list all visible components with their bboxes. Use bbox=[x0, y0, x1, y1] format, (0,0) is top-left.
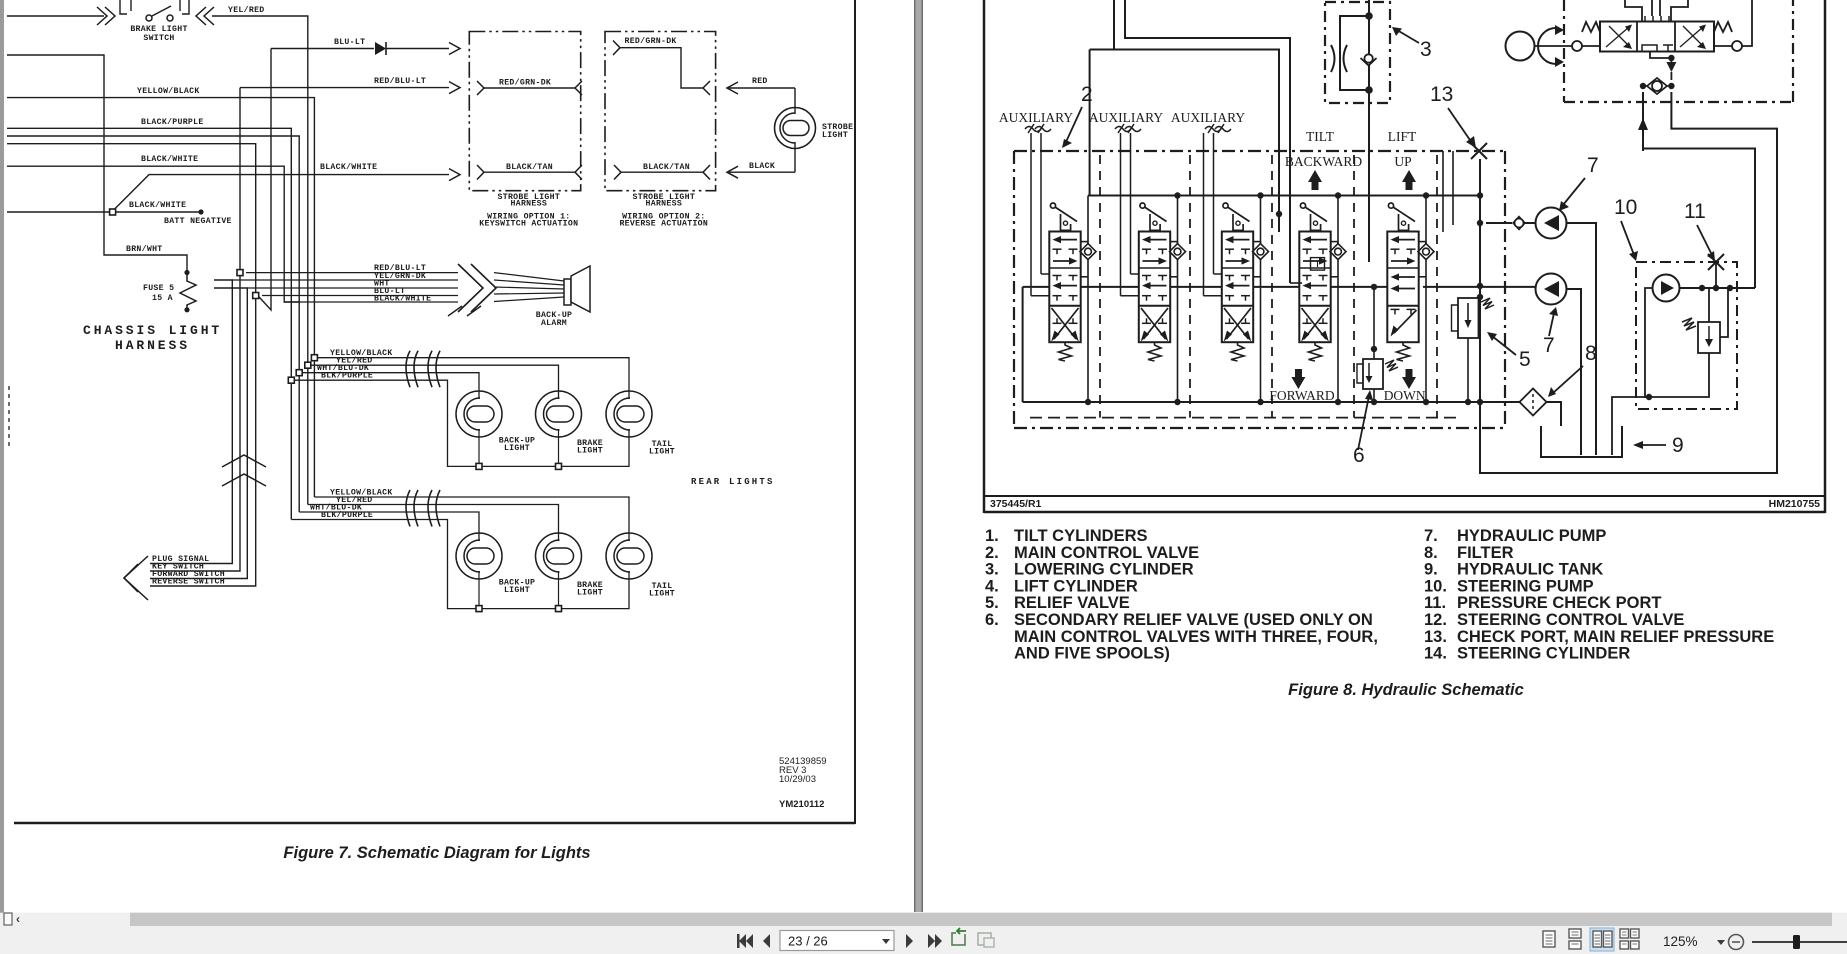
valve spool crossover box with arrows bbox=[1302, 308, 1327, 339]
svg-text:125%: 125% bbox=[1663, 934, 1698, 949]
bus junction dots bbox=[1085, 399, 1091, 405]
valve spool crossover box with arrows bbox=[1224, 308, 1249, 339]
svg-text:3.: 3. bbox=[985, 561, 999, 579]
wire bundle vertical 4 to reverse switch bbox=[150, 296, 256, 587]
steering wheel bbox=[1506, 32, 1535, 61]
top bus dots bbox=[1174, 192, 1180, 198]
valve spool lever bbox=[1050, 203, 1055, 208]
svg-text:AUXILIARY: AUXILIARY bbox=[999, 110, 1073, 125]
toolbar next page button bbox=[906, 934, 913, 948]
wire break marks bbox=[406, 351, 410, 388]
svg-text:LIFT CYLINDER: LIFT CYLINDER bbox=[1014, 577, 1138, 595]
bus junction dots bbox=[1257, 399, 1263, 405]
supply line step upper bbox=[1125, 0, 1290, 283]
svg-text:11: 11 bbox=[1684, 200, 1706, 223]
steering valve springs bbox=[1582, 22, 1600, 32]
valve spool lever bbox=[1300, 203, 1305, 208]
svg-text:MAIN CONTROL VALVES WITH THREE: MAIN CONTROL VALVES WITH THREE, FOUR, bbox=[1014, 628, 1378, 646]
bundle break chevrons on vertical bundle bbox=[222, 455, 266, 467]
svg-text:LIGHT: LIGHT bbox=[577, 589, 603, 598]
page 2 title strip line bbox=[984, 495, 1825, 497]
svg-text:SECONDARY RELIEF VALVE (USED O: SECONDARY RELIEF VALVE (USED ONLY ON bbox=[1014, 611, 1373, 629]
wire BLACK from strobe light bbox=[794, 142, 796, 172]
svg-text:HARNESS: HARNESS bbox=[115, 338, 190, 353]
lamp ground stubs and junction squares bbox=[478, 571, 480, 609]
toolbar prev page button bbox=[763, 934, 770, 948]
bottom tank bus bbox=[1023, 401, 1480, 403]
svg-text:STEERING CONTROL VALVE: STEERING CONTROL VALVE bbox=[1457, 611, 1684, 629]
lift spool lowered section bbox=[1391, 273, 1400, 280]
svg-text:Figure 8. Hydraulic Schematic: Figure 8. Hydraulic Schematic bbox=[1288, 681, 1524, 699]
load check valve bbox=[1425, 196, 1427, 245]
page 2 frame bbox=[983, 0, 986, 513]
lamp tail light bbox=[606, 533, 652, 579]
wire RED into strobe light bbox=[727, 82, 738, 94]
svg-text:15 A: 15 A bbox=[152, 294, 173, 303]
svg-text:HYDRAULIC PUMP: HYDRAULIC PUMP bbox=[1457, 527, 1606, 545]
svg-text:CHASSIS LIGHT: CHASSIS LIGHT bbox=[83, 323, 222, 338]
svg-text:CHECK PORT, MAIN RELIEF PRESSU: CHECK PORT, MAIN RELIEF PRESSURE bbox=[1457, 628, 1774, 646]
svg-text:10.: 10. bbox=[1424, 577, 1447, 595]
restriction arcs in box 3 bbox=[1331, 45, 1335, 72]
check valve under steering valve bbox=[1652, 81, 1662, 91]
bundle wires rising at switch right bbox=[179, 0, 181, 11]
svg-text:LIGHT: LIGHT bbox=[649, 448, 675, 457]
svg-text:10: 10 bbox=[1614, 196, 1637, 219]
svg-text:STEERING CYLINDER: STEERING CYLINDER bbox=[1457, 645, 1630, 663]
svg-text:6.: 6. bbox=[985, 611, 999, 629]
svg-text:AUXILIARY: AUXILIARY bbox=[1089, 110, 1163, 125]
svg-text:BLACK/WHITE: BLACK/WHITE bbox=[129, 200, 186, 210]
bundle end arrow at plug signals bbox=[124, 556, 148, 600]
bundle crossing chevrons left of switch bbox=[97, 7, 107, 25]
relief valve 5 bbox=[1458, 298, 1479, 338]
supply line step lower bbox=[1113, 0, 1115, 50]
svg-text:BLU-LT: BLU-LT bbox=[334, 38, 365, 47]
svg-text:10/29/03: 10/29/03 bbox=[779, 774, 816, 785]
svg-text:5: 5 bbox=[1519, 348, 1531, 371]
steering pump bbox=[1653, 275, 1680, 302]
filter 8 bbox=[1480, 401, 1520, 403]
svg-text:BLACK/TAN: BLACK/TAN bbox=[506, 162, 553, 172]
toolbar snapshot icons bbox=[952, 933, 965, 945]
wire YEL/RED from switch to right elbow bbox=[212, 16, 308, 505]
svg-text:BATT NEGATIVE: BATT NEGATIVE bbox=[164, 217, 232, 226]
steering valve block bbox=[1600, 22, 1714, 52]
valve spool body bbox=[1222, 232, 1253, 343]
svg-text:TILT: TILT bbox=[1306, 129, 1335, 144]
tilt spool feed line elbow bbox=[1290, 282, 1302, 284]
svg-text:BLACK/WHITE: BLACK/WHITE bbox=[320, 162, 377, 172]
svg-text:FILTER: FILTER bbox=[1457, 544, 1514, 562]
lamp back-up light bbox=[456, 533, 502, 579]
toolbar zoom slider bbox=[1752, 941, 1847, 943]
junction square RED/BLU-LT bbox=[237, 270, 243, 276]
pressure feed drop to top bus bbox=[1089, 50, 1091, 196]
toolbar prev-view button bbox=[739, 934, 746, 948]
svg-text:TILT CYLINDERS: TILT CYLINDERS bbox=[1014, 527, 1148, 545]
wire bundle vertical 2 to key switch bbox=[150, 273, 240, 571]
lamp ground stubs and junction squares bbox=[478, 429, 480, 466]
bus junction dots bbox=[1335, 399, 1341, 405]
svg-text:AUXILIARY: AUXILIARY bbox=[1171, 110, 1245, 125]
svg-text:HYDRAULIC TANK: HYDRAULIC TANK bbox=[1457, 561, 1603, 579]
valve spool body bbox=[1139, 232, 1170, 343]
svg-text:2.: 2. bbox=[985, 544, 999, 562]
wire from left edge down to BRN/WHT elbow bbox=[7, 55, 187, 273]
svg-text:14.: 14. bbox=[1424, 645, 1447, 663]
junction squares rear group 1 bbox=[311, 355, 317, 361]
lift spool feed lines bbox=[1442, 151, 1444, 232]
svg-text:13: 13 bbox=[1430, 83, 1453, 106]
svg-text:YELLOW/BLACK: YELLOW/BLACK bbox=[137, 86, 200, 96]
valve spool crossover box with arrows bbox=[1141, 308, 1166, 339]
svg-text:9.: 9. bbox=[1424, 561, 1438, 579]
svg-text:BRN/WHT: BRN/WHT bbox=[126, 244, 163, 254]
svg-text:13.: 13. bbox=[1424, 628, 1447, 646]
load check valve bbox=[1260, 196, 1262, 245]
svg-text:LIFT: LIFT bbox=[1388, 129, 1417, 144]
toolbar layout two-up icon selected bbox=[1590, 928, 1614, 951]
steering valve left section arrows bbox=[1606, 27, 1629, 47]
bundle wires rising at switch left bbox=[120, 0, 127, 14]
steering valve pilot lines above bbox=[1625, 0, 1642, 22]
steering pump box 10 bbox=[1636, 262, 1737, 409]
valve spool return spring bbox=[1059, 342, 1072, 361]
wire batt negative from left edge bbox=[7, 211, 109, 213]
svg-text:BACKWARD: BACKWARD bbox=[1285, 154, 1363, 169]
svg-text:11.: 11. bbox=[1424, 594, 1446, 612]
svg-text:2: 2 bbox=[1081, 83, 1093, 106]
toolbar zoom out button bbox=[1729, 935, 1744, 950]
strobe light harness box option 1 bbox=[469, 32, 580, 191]
svg-text:BLK/PURPLE: BLK/PURPLE bbox=[321, 371, 373, 381]
svg-text:KEYSWITCH ACTUATION: KEYSWITCH ACTUATION bbox=[479, 219, 578, 228]
connector pair BLACK/TAN in box 1 bbox=[477, 165, 484, 180]
valve spool body bbox=[1299, 232, 1330, 343]
svg-text:HARNESS: HARNESS bbox=[646, 200, 683, 209]
svg-text:375445/R1: 375445/R1 bbox=[990, 498, 1042, 510]
strobe light harness box option 2 bbox=[605, 32, 716, 191]
brake light switch bbox=[146, 15, 152, 21]
toolbar layout single page icon bbox=[1543, 931, 1555, 947]
page 1 frame right border bbox=[854, 0, 856, 824]
wire RED/GRN-DK stepping in box 2 bbox=[613, 41, 620, 56]
pump B outlet to tank bbox=[1566, 289, 1581, 455]
steering pump output line with dots bbox=[1680, 287, 1755, 289]
svg-text:RED/BLU-LT: RED/BLU-LT bbox=[374, 76, 426, 86]
valve spool return spring bbox=[1231, 342, 1244, 361]
bus junction dots bbox=[1174, 399, 1180, 405]
alarm bundle crossing chevrons bbox=[458, 264, 483, 312]
svg-text:ALARM: ALARM bbox=[541, 319, 567, 328]
top pressure bus bbox=[1088, 195, 1480, 197]
rotation arrows bbox=[1538, 28, 1556, 64]
svg-text:RELIEF VALVE: RELIEF VALVE bbox=[1014, 594, 1130, 612]
svg-text:SWITCH: SWITCH bbox=[143, 34, 174, 43]
steering valve bottom port to check bbox=[1650, 52, 1671, 59]
svg-text:RED/GRN-DK: RED/GRN-DK bbox=[625, 36, 677, 46]
auxiliary feed lines bbox=[1203, 133, 1205, 296]
steering valve middle section ports bbox=[1644, 16, 1646, 22]
valve spool body bbox=[1387, 232, 1418, 343]
valve spool lever bbox=[1223, 203, 1228, 208]
wire bundle vertical 3 to forward switch bbox=[150, 288, 247, 579]
svg-text:4.: 4. bbox=[985, 577, 999, 595]
lamp brake light bbox=[536, 533, 582, 579]
page 1 frame bottom border bbox=[14, 822, 855, 825]
svg-text:LIGHT: LIGHT bbox=[504, 586, 530, 595]
hydraulic pump B bbox=[1536, 274, 1567, 305]
toolbar next-view button bbox=[928, 934, 935, 948]
inner sub-box bottom dashed border bbox=[1030, 417, 1460, 419]
svg-text:8: 8 bbox=[1585, 342, 1597, 365]
valve partitions dashed bbox=[1099, 155, 1101, 418]
batt negative stub with dot bbox=[116, 211, 201, 213]
svg-text:YM210112: YM210112 bbox=[779, 799, 824, 810]
wire into brake light switch from left bbox=[7, 15, 104, 17]
valve spool return spring bbox=[1148, 342, 1161, 361]
svg-text:FUSE 5: FUSE 5 bbox=[143, 284, 174, 293]
svg-text:REAR LIGHTS: REAR LIGHTS bbox=[691, 477, 775, 487]
svg-text:BLACK/TAN: BLACK/TAN bbox=[643, 162, 690, 172]
bundle crossing chevrons right of switch bbox=[196, 7, 206, 25]
svg-text:LIGHT: LIGHT bbox=[577, 447, 603, 456]
svg-text:STEERING PUMP: STEERING PUMP bbox=[1457, 577, 1594, 595]
svg-text:LIGHT: LIGHT bbox=[822, 131, 848, 140]
connector pair BLACK/TAN in box 2 bbox=[614, 165, 621, 180]
auxiliary feed lines bbox=[1120, 133, 1122, 296]
svg-text:3: 3 bbox=[1420, 38, 1432, 61]
steering relief valve bbox=[1698, 322, 1720, 353]
vertical RED/BLU-LT down to alarm bundle bbox=[239, 88, 241, 270]
load check valve bbox=[1177, 196, 1179, 245]
auxiliary feed lines bbox=[1030, 133, 1032, 296]
svg-text:BRAKE LIGHT: BRAKE LIGHT bbox=[130, 25, 187, 34]
return loop to steering valve bbox=[1480, 92, 1777, 473]
svg-text:BLACK: BLACK bbox=[749, 162, 775, 171]
main control valve box 2 dash-dot border bbox=[1014, 150, 1505, 152]
svg-text:5.: 5. bbox=[985, 594, 999, 612]
svg-text:7: 7 bbox=[1587, 154, 1599, 177]
svg-text:RED: RED bbox=[752, 77, 768, 86]
connector pair RED/GRN-DK in box 1 bbox=[477, 81, 484, 95]
horizontal scrollbar bbox=[0, 913, 1847, 954]
svg-text:12.: 12. bbox=[1424, 611, 1447, 629]
valve spool return spring bbox=[1309, 342, 1322, 361]
secondary relief valve 6 bbox=[1373, 287, 1375, 359]
steering valve input link circle bbox=[1572, 41, 1582, 51]
svg-text:7: 7 bbox=[1543, 334, 1555, 357]
lowering cylinder internals bbox=[1340, 16, 1369, 90]
valve spool return spring bbox=[1397, 342, 1410, 361]
svg-text:HM210755: HM210755 bbox=[1769, 498, 1821, 510]
mid bus left connector bbox=[1022, 287, 1024, 402]
steering valve right section arrows bbox=[1680, 27, 1703, 47]
lamp brake light bbox=[536, 391, 582, 437]
steering relief return bbox=[1612, 353, 1709, 455]
valve spool lever bbox=[1388, 203, 1393, 208]
svg-text:MAIN CONTROL VALVE: MAIN CONTROL VALVE bbox=[1014, 544, 1199, 562]
load check valve bbox=[1337, 196, 1339, 245]
junction square battery negative bbox=[110, 209, 116, 215]
svg-text:BLACK/PURPLE: BLACK/PURPLE bbox=[141, 117, 204, 127]
svg-text:LIGHT: LIGHT bbox=[504, 444, 530, 453]
svg-text:REVERSE SWITCH: REVERSE SWITCH bbox=[152, 578, 225, 587]
svg-text:RED/GRN-DK: RED/GRN-DK bbox=[499, 78, 551, 88]
toolbar layout two-up continuous icon bbox=[1620, 929, 1629, 938]
steering control valve box 12 bbox=[1563, 0, 1565, 102]
svg-text:1.: 1. bbox=[985, 527, 999, 545]
load check valve bbox=[1087, 196, 1089, 245]
bus junction dots bbox=[1423, 399, 1429, 405]
fuse 5 15A bbox=[184, 270, 189, 275]
pump A outlet to tank bbox=[1566, 223, 1596, 455]
rear light harness wires bbox=[318, 358, 630, 399]
svg-text:9: 9 bbox=[1672, 434, 1684, 457]
back-up alarm horn bbox=[564, 279, 571, 305]
svg-text:HARNESS: HARNESS bbox=[511, 200, 548, 209]
svg-text:Figure 7. Schematic Diagram f: Figure 7. Schematic Diagram for Lights bbox=[283, 844, 590, 862]
svg-text:‹: ‹ bbox=[16, 912, 20, 926]
svg-text:UP: UP bbox=[1394, 154, 1411, 169]
vertical BLU-LT down with jog to alarm bundle square bbox=[258, 49, 271, 311]
lamp back-up light bbox=[456, 391, 502, 437]
main line from check port X down bbox=[1479, 159, 1481, 402]
lowering cylinder line down to tilt spool bbox=[1368, 0, 1370, 54]
toolbar page number box bbox=[780, 931, 894, 951]
junction square BLU-LT bbox=[253, 293, 259, 299]
pilot check valve in box 3 bbox=[1364, 54, 1372, 62]
toolbar layout continuous icon bbox=[1569, 929, 1581, 938]
svg-text:BLACK/WHITE: BLACK/WHITE bbox=[141, 154, 198, 164]
diode on BLU-LT wire bbox=[375, 42, 386, 55]
wire bundle vertical 1 to plug signal bbox=[150, 280, 232, 564]
steering valve right end circle and line up bbox=[1732, 41, 1742, 51]
svg-text:LIGHT: LIGHT bbox=[649, 590, 675, 599]
rear light harness wires bbox=[314, 497, 629, 541]
svg-text:REVERSE ACTUATION: REVERSE ACTUATION bbox=[619, 219, 708, 228]
mid bus bbox=[1023, 286, 1049, 288]
svg-text:LOWERING CYLINDER: LOWERING CYLINDER bbox=[1014, 561, 1194, 579]
svg-text:AND FIVE SPOOLS): AND FIVE SPOOLS) bbox=[1014, 645, 1170, 663]
hydraulic pump A with inlet check bbox=[1486, 222, 1512, 224]
svg-text:DOWN: DOWN bbox=[1384, 388, 1426, 403]
page 1 cut-off dashed box border at left edge bbox=[8, 386, 10, 446]
steering supply Z line bbox=[1643, 149, 1755, 289]
wire break marks bbox=[406, 490, 410, 527]
window left edge strip bbox=[0, 0, 4, 925]
hydraulic tank 9 bbox=[1541, 426, 1622, 457]
svg-text:FORWARD: FORWARD bbox=[1269, 388, 1335, 403]
valve spool body bbox=[1049, 232, 1080, 343]
valve spool crossover box with arrows bbox=[1052, 308, 1077, 339]
page divider bar bbox=[914, 0, 923, 912]
svg-text:8.: 8. bbox=[1424, 544, 1438, 562]
strobe light lamp bbox=[775, 108, 816, 149]
svg-text:7.: 7. bbox=[1424, 527, 1438, 545]
valve spool crossover box with arrows bbox=[1394, 310, 1417, 333]
svg-text:PRESSURE CHECK PORT: PRESSURE CHECK PORT bbox=[1457, 594, 1661, 612]
svg-text:23 / 26: 23 / 26 bbox=[788, 934, 828, 949]
svg-text:YEL/RED: YEL/RED bbox=[228, 5, 265, 15]
valve spool lever bbox=[1140, 203, 1145, 208]
lowering cylinder box 3 bbox=[1325, 2, 1390, 103]
lamp tail light bbox=[606, 391, 652, 437]
